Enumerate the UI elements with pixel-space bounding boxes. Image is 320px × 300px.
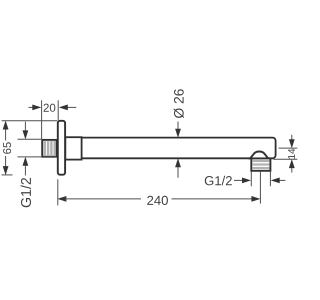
dim Ø26 down arrow (175, 122, 181, 138)
wire: dim-65 top extension line (2, 120, 58, 122)
label G1/2 right (205, 176, 232, 186)
dim-14 down arrow (289, 135, 295, 149)
wire: outlet center extension line (259, 171, 261, 203)
wire: dim-20 right extension line (57, 100, 59, 120)
label 65 (3, 142, 11, 154)
wire: dim-14 bottom extension line (273, 158, 297, 160)
collar section at flange (65, 137, 81, 159)
dim-65 vertical line with arrows (3, 121, 9, 176)
dim-20 right arrow (59, 105, 77, 111)
label 240 (147, 196, 168, 205)
wire: dim-14 top extension line (279, 147, 298, 149)
label 20 (44, 104, 56, 112)
dim-240 line with arrows (57, 196, 260, 202)
outlet dome cap (250, 152, 268, 159)
wire: dim-240 left extension line (57, 179, 59, 205)
G1/2 left up arrow (23, 157, 29, 176)
label Ø26 (174, 89, 184, 118)
wire: G1/2 left top extension line (18, 138, 42, 140)
G1/2 right arrow pointing left (271, 178, 286, 184)
dim Ø26 up arrow (175, 158, 181, 178)
label 14 (288, 149, 295, 159)
dim-14 up arrow (289, 159, 295, 173)
shower arm tube (82, 138, 276, 159)
outlet thread G1/2 (251, 158, 270, 170)
G1/2 left down arrow (23, 122, 29, 140)
wire: outlet right extension line (269, 171, 271, 186)
wall flange (escutcheon, side view) (58, 121, 65, 175)
wire: dim-65 bottom extension line (2, 174, 13, 176)
G1/2 right arrow pointing right (234, 178, 251, 184)
dim-20 left arrow (29, 105, 42, 111)
wire: dim-20 left extension line (41, 100, 43, 139)
threaded nipple G1/2 (wall side) (42, 140, 56, 157)
label G1/2 left (21, 178, 31, 207)
wire: G1/2 left bottom extension line (18, 156, 42, 158)
wire: outlet left extension line (250, 171, 252, 186)
